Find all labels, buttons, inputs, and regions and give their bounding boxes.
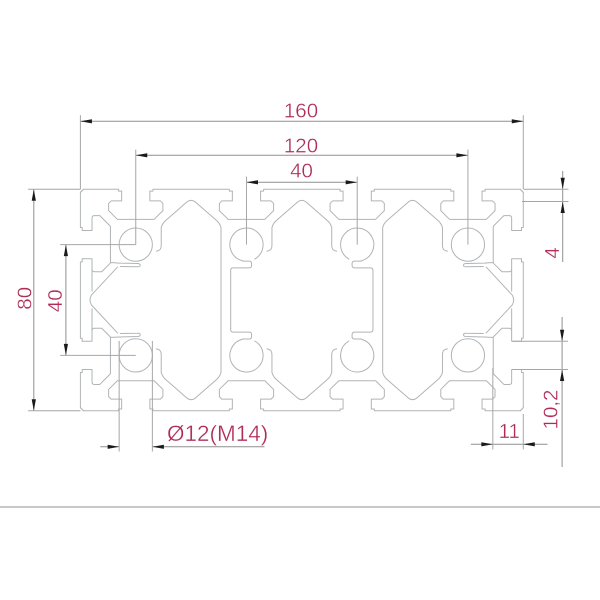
screw channel circle (60,20)	[230, 228, 263, 261]
svg-text:160: 160	[284, 100, 318, 123]
dimension 40 top line	[246, 181, 357, 183]
mid-band chevron void left	[90, 263, 140, 338]
dimension 10,2 line	[561, 317, 563, 467]
svg-text:40: 40	[44, 289, 67, 312]
svg-text:11: 11	[499, 420, 520, 443]
bottom T-slot cavity x=100	[330, 381, 384, 409]
profile right edge	[520, 189, 523, 410]
dimension 40 left bottom extension	[60, 354, 136, 356]
dimension 120 left extension	[135, 150, 137, 245]
screw channel circle (60,60)	[230, 339, 263, 372]
dimension 40 top right arrow	[346, 180, 358, 184]
dimension 40 left top extension	[60, 244, 136, 246]
bottom T-slot cavity x=20	[109, 381, 163, 409]
dimension Ø12 line left tail	[100, 446, 119, 448]
dimension 80 line	[33, 189, 35, 410]
svg-text:40: 40	[290, 159, 313, 182]
mid-band chevron void right	[463, 263, 513, 338]
web channel x=100	[352, 261, 373, 339]
top T-slot cavity x=100	[330, 191, 384, 219]
dimension 40 top left extension	[245, 177, 247, 245]
dimension 40 top left arrow	[246, 180, 258, 184]
dimension 120 line	[136, 154, 468, 156]
profile top edge	[80, 189, 523, 192]
dimension 11 left extension	[492, 368, 494, 450]
dimension 11 line	[471, 443, 548, 445]
dimension 11 right arrow	[523, 442, 535, 446]
dimension 120 left arrow	[136, 153, 148, 157]
dimension 160 right arrow	[512, 119, 524, 123]
screw channel circle (140,60)	[451, 339, 484, 372]
dimension 11 right extension	[522, 414, 524, 450]
dimension Ø12 right extension	[151, 341, 153, 452]
left T-slot cavity y=60 with corner pocket	[82, 328, 110, 384]
dimension 11 left arrow	[481, 442, 493, 446]
dimension 120 right extension	[467, 150, 469, 245]
interior cell x=40	[156, 200, 221, 399]
screw channel circle (100,20)	[341, 228, 374, 261]
interior cell x=80	[267, 200, 337, 399]
right T-slot cavity y=20 with corner pocket	[493, 216, 521, 272]
dimension 4 top arrow	[561, 178, 565, 190]
dimension 40 left bottom arrow	[64, 344, 68, 356]
dimension 80 bottom arrow	[32, 399, 36, 411]
dimension 160 left extension	[79, 115, 81, 189]
svg-text:10,2: 10,2	[539, 390, 562, 430]
dimension Ø12 right arrow	[152, 445, 164, 449]
svg-text:80: 80	[14, 287, 37, 310]
dimension 10,2 bottom extension	[512, 369, 568, 371]
dimension 4 bottom arrow	[561, 201, 565, 213]
top T-slot cavity x=60	[219, 191, 273, 219]
dimension 40 left line	[65, 245, 67, 356]
dimension 40 left top arrow	[64, 245, 68, 257]
interior cell x=120	[383, 200, 448, 399]
svg-text:4: 4	[541, 247, 564, 258]
screw channel circle (20,60)	[119, 339, 152, 372]
dimension 120 right arrow	[456, 153, 468, 157]
dimension 10,2 top extension	[512, 340, 568, 342]
screw channel circle (100,60)	[341, 339, 374, 372]
bottom T-slot cavity x=60	[219, 381, 273, 409]
dimension 160 right extension	[522, 115, 524, 189]
profile bottom edge	[80, 408, 523, 411]
right T-slot cavity y=60 with corner pocket	[493, 328, 521, 384]
svg-text:120: 120	[284, 135, 318, 158]
left T-slot cavity y=20 with corner pocket	[82, 216, 110, 272]
dimension Ø12 left arrow	[108, 445, 120, 449]
dimension 40 top right extension	[356, 177, 358, 245]
page separator rule	[0, 506, 600, 508]
top T-slot cavity x=20	[109, 191, 163, 219]
dimension 160 line	[80, 120, 523, 122]
web channel x=60	[231, 261, 252, 339]
top T-slot cavity x=140	[441, 191, 495, 219]
dimension 4 bottom extension	[522, 200, 569, 202]
dimension Ø12 line right tail	[152, 446, 264, 448]
screw channel circle (20,20)	[119, 228, 152, 261]
dimension Ø12 left extension	[118, 341, 120, 452]
dimension 10,2 top arrow	[560, 330, 564, 342]
profile left edge	[80, 189, 83, 410]
svg-text:Ø12(M14): Ø12(M14)	[167, 421, 268, 446]
bottom T-slot cavity x=140	[441, 381, 495, 409]
dimension 4 top extension	[524, 188, 569, 190]
dimension 10,2 bottom arrow	[560, 370, 564, 382]
dimension 80 bottom extension	[28, 410, 80, 412]
dimension 160 left arrow	[80, 119, 92, 123]
screw channel circle (140,20)	[451, 228, 484, 261]
dimension 4 line	[562, 171, 564, 262]
dimension 80 top extension	[28, 188, 80, 190]
dimension 80 top arrow	[32, 189, 36, 201]
